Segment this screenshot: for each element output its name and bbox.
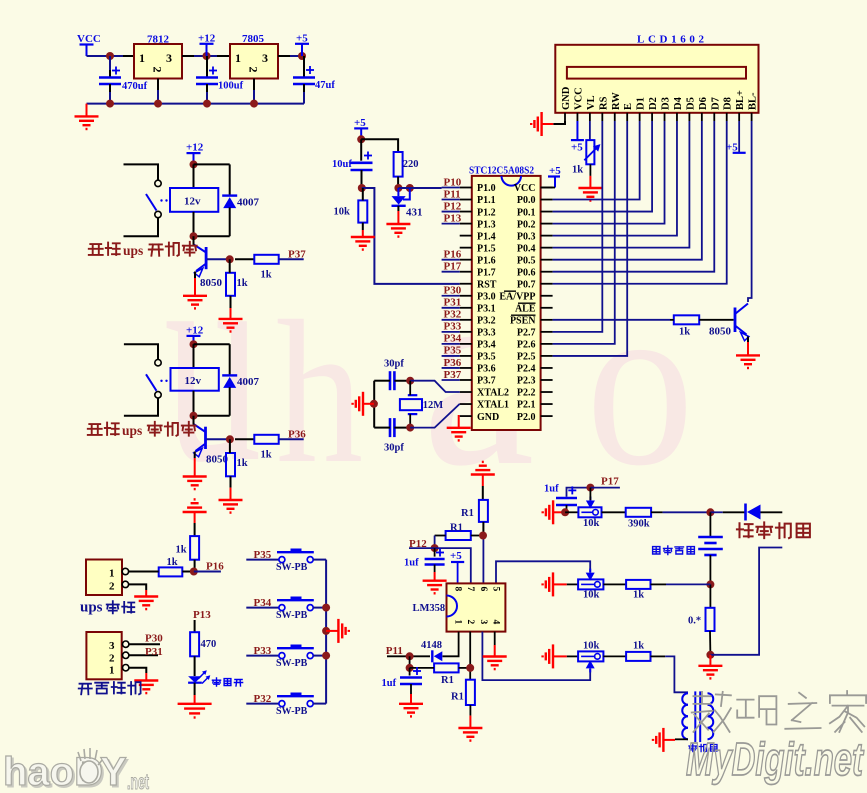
decor [692,692,731,732]
transistor Q1 8050 [194,244,223,289]
wire [246,607,278,609]
wire [494,632,496,645]
svg-text:1uf: 1uf [544,484,559,495]
svg-text:P0.2: P0.2 [517,219,536,230]
svg-text:8050: 8050 [200,277,223,289]
svg-text:ups: ups [122,423,142,438]
wire [290,55,304,57]
wire [553,121,565,124]
net label P34 [254,597,272,609]
wire [313,655,326,657]
wire [124,344,158,359]
svg-text:D3: D3 [661,97,672,110]
svg-text:BL+: BL+ [735,90,746,110]
wire [747,337,749,343]
svg-text:1k: 1k [261,450,272,461]
wire [182,571,190,573]
svg-text:P12: P12 [444,200,462,212]
wire [253,90,255,104]
wire [246,559,278,561]
push button S3 SW-PB [276,645,314,669]
wire [410,684,412,694]
label [88,422,196,438]
net label P17 [601,476,619,488]
svg-text:1: 1 [109,665,115,677]
svg-text:+12: +12 [186,142,204,154]
wire [194,512,196,536]
wire [397,206,399,211]
net label P11 [386,645,403,657]
node [706,508,714,516]
resistor R 1k horizontal [159,557,183,576]
capacitor C 30pf bottom [384,418,404,453]
wire [193,164,195,188]
potentiometer RP2 10k [578,569,603,601]
svg-text:P3.6: P3.6 [477,364,496,375]
label [689,744,717,752]
power flag +5 [571,121,584,154]
wire [471,535,479,537]
wire [553,121,715,272]
svg-text:7: 7 [465,587,475,592]
node [298,52,306,60]
resistor R 1k horizontal [254,435,278,461]
wire [553,121,665,224]
svg-text:390k: 390k [628,519,650,530]
wire [553,121,628,356]
wire [194,452,196,459]
IC U3 STC12C5A08S2 [469,165,541,431]
ground [543,644,567,668]
ground [447,428,471,441]
push button S2 SW-PB [276,597,314,621]
capacitor C 1uf [404,548,445,568]
power flag +5 [726,121,746,154]
wire [194,656,196,676]
pin [460,188,472,417]
wire [325,560,327,704]
diode D4 solar [746,504,761,521]
wire [482,475,484,500]
svg-text:+5: +5 [726,142,738,154]
svg-text:P2.4: P2.4 [517,364,536,375]
label [80,600,134,616]
svg-text:30pf: 30pf [384,443,404,454]
wire [435,535,446,537]
wire [397,177,399,188]
svg-text:SW-PB: SW-PB [276,658,308,669]
wire [675,738,688,740]
wire [374,380,390,382]
svg-text:SW-PB: SW-PB [276,706,308,717]
wire [246,655,278,657]
ground [578,176,602,201]
svg-text:MyDigit.net: MyDigit.net [686,733,864,785]
capacitor C 10uf [332,139,373,170]
svg-text:10k: 10k [583,641,600,652]
net label P35 [254,549,272,561]
svg-text:D8: D8 [723,97,734,110]
svg-text:2: 2 [109,653,115,665]
svg-text:D6: D6 [698,97,709,110]
label [79,682,141,694]
svg-text:2: 2 [247,67,261,73]
ground [531,112,553,136]
pin [278,55,290,57]
svg-text:P36: P36 [288,429,306,441]
net label P33 [254,645,272,657]
wire [129,668,146,673]
svg-text:P3.7: P3.7 [477,376,496,387]
wire [194,620,196,632]
svg-text:P31: P31 [145,646,163,658]
wire [313,559,326,561]
node [466,664,474,672]
svg-text:LM358: LM358 [413,603,446,614]
svg-text:6: 6 [478,587,488,592]
svg-text:P13: P13 [193,609,211,621]
svg-text:1uf: 1uf [382,678,397,689]
node [190,340,198,348]
svg-text:1uf: 1uf [404,558,419,569]
ground [183,458,207,489]
svg-text:+5: +5 [296,33,308,45]
node [406,652,414,660]
transistor Q2 8050 [194,424,229,466]
svg-text:VL: VL [586,95,597,110]
svg-text:1k: 1k [633,641,644,652]
wire [589,121,591,140]
wire [193,236,195,245]
wire [565,511,578,513]
svg-text:.net: .net [127,771,149,793]
svg-text:P1.4: P1.4 [477,231,496,242]
svg-text:2: 2 [109,581,115,593]
pin [253,79,255,91]
wire [567,655,578,657]
svg-text:2: 2 [465,620,475,625]
svg-text:STC12C5A08S2: STC12C5A08S2 [469,165,534,177]
pin [109,84,111,92]
svg-text:7805: 7805 [242,33,265,45]
wire [207,438,230,440]
pin [230,476,232,487]
relay K2 contact [146,360,168,398]
svg-text:VCC: VCC [514,183,536,194]
transformer T1 [682,691,713,742]
wire [279,438,304,440]
svg-text:P2.0: P2.0 [517,412,536,423]
net label P12 [409,538,427,550]
wire [670,319,674,321]
ground [178,695,212,718]
regulator U2 7805 [230,33,278,79]
svg-text:+12: +12 [186,325,204,337]
wire [589,164,591,176]
wire [373,381,375,428]
resistor R 10k [334,200,368,222]
ground [423,572,447,593]
svg-text:12v: 12v [184,196,201,208]
svg-text:P17: P17 [601,476,619,488]
svg-text:P2.5: P2.5 [517,352,536,363]
wire [124,218,159,237]
wire [235,258,254,260]
wire [109,56,111,70]
ground [543,500,565,524]
svg-text:P3.2: P3.2 [477,316,496,327]
svg-text:P0.5: P0.5 [517,255,536,266]
wire [663,511,711,513]
wire [157,90,159,104]
svg-text:P37: P37 [288,249,306,261]
pin [109,70,111,78]
wire [87,103,305,105]
svg-text:P17: P17 [444,261,462,273]
wire [313,607,326,609]
wire [374,427,390,429]
pin [230,296,232,308]
wire [194,571,221,573]
svg-text:P35: P35 [444,345,462,357]
svg-text:P0.7: P0.7 [517,279,536,290]
svg-text:3: 3 [109,640,115,652]
wire [394,427,410,429]
wire [193,212,195,236]
svg-text:1: 1 [139,51,145,65]
wire [553,121,690,248]
wire [442,188,460,380]
svg-text:47uf: 47uf [315,80,335,91]
svg-text:D7: D7 [710,97,721,110]
svg-text:1k: 1k [176,545,187,556]
svg-text:4: 4 [491,620,501,625]
svg-text:4007: 4007 [237,376,260,388]
ground [351,230,375,250]
wire [434,565,436,573]
svg-text:XTAL1: XTAL1 [477,400,509,411]
pin [206,84,208,92]
node [190,412,198,420]
wire [410,404,460,428]
wire [409,656,411,668]
push button S4 SW-PB [276,693,314,717]
node [226,255,234,263]
wire [193,391,195,416]
svg-text:LCD1602: LCD1602 [637,34,705,46]
svg-text:P1.3: P1.3 [477,219,496,230]
diode D1 4007 [222,164,259,236]
IC U5 LM358 [413,583,506,631]
wire [590,487,620,489]
wire [459,667,471,669]
ground [353,392,374,416]
pin [123,55,134,57]
svg-text:30pf: 30pf [384,359,404,370]
wire [553,121,677,236]
wire [124,164,159,180]
svg-text:P1.5: P1.5 [477,243,496,254]
LCD U4 LCD1602 [555,34,758,113]
svg-text:4007: 4007 [237,197,260,209]
svg-text:P1.0: P1.0 [477,183,496,194]
transistor Q3 8050 [709,304,749,341]
node [203,52,211,60]
pin [362,223,364,230]
svg-text:12v: 12v [185,375,202,387]
relay K1 contact [146,180,168,218]
wire [469,632,471,680]
wire [553,121,640,200]
wire [603,655,626,657]
wire [651,583,667,585]
svg-text:1k: 1k [237,458,248,469]
svg-text:1k: 1k [633,590,644,601]
net label P30 [145,633,163,645]
wire [387,655,430,657]
svg-text:3: 3 [478,620,488,625]
svg-text:10k: 10k [334,207,351,218]
wire [553,121,652,212]
wire [541,187,555,189]
wire [553,121,727,284]
wire [553,319,670,321]
svg-text:SW-PB: SW-PB [276,562,308,573]
svg-text:8050: 8050 [709,326,732,338]
wire [443,632,459,657]
wire [496,561,590,583]
capacitor C2 100uf [196,67,244,92]
resistor R 220 [394,152,419,177]
wire [362,188,460,284]
power flag +5 [548,165,561,188]
svg-text:P0.1: P0.1 [517,207,536,218]
wire [435,548,471,583]
svg-text:P3.1: P3.1 [477,304,496,315]
ground [134,590,158,609]
svg-text:ups: ups [123,243,143,258]
svg-text:Y: Y [100,750,127,793]
IC U3 pin names [477,183,536,423]
node [406,377,414,385]
svg-text:P1.6: P1.6 [477,255,496,266]
svg-text:EA/VPP: EA/VPP [499,291,535,302]
svg-text:+5: +5 [549,165,561,177]
wire [124,398,158,416]
net labels MCU left [444,176,462,380]
resistor R 470 [190,632,216,656]
svg-text:1k: 1k [237,278,248,289]
wire [710,511,722,513]
wire [193,416,195,425]
svg-text:GND: GND [561,86,572,110]
svg-text:P0.6: P0.6 [517,267,536,278]
wire [723,511,745,513]
svg-text:10k: 10k [583,518,600,529]
wire [194,415,230,417]
wire [482,522,484,536]
resistor R1 horizontal [446,523,471,541]
wire [303,92,305,104]
wire [246,703,278,705]
wire [398,187,409,189]
power flag VCC [77,33,101,56]
svg-text:R1: R1 [451,692,464,703]
power flag +5 [450,550,464,583]
svg-text:5: 5 [491,587,501,592]
capacitor C1 470uf [99,67,148,93]
svg-text:RST: RST [477,279,497,290]
svg-text:2: 2 [151,67,165,73]
potentiometer RP 1k [572,140,600,175]
power flag +12 [186,142,204,165]
capacitor C 1uf 2 [382,667,423,689]
svg-text:1k: 1k [572,165,583,176]
pin [565,113,752,121]
svg-text:P1.1: P1.1 [477,195,496,206]
pin [182,55,194,57]
regulator U1 7812 [134,34,182,79]
svg-text:PSEN: PSEN [510,316,536,327]
wire [710,548,782,655]
wire [651,655,666,657]
wire [553,121,615,344]
svg-text:R1: R1 [450,523,463,534]
resistor R1 vertical top [461,500,488,522]
wire [194,55,217,57]
svg-text:P33: P33 [444,321,462,333]
wire [409,547,435,549]
wire [434,536,436,549]
net label P32 [254,693,272,705]
svg-text:P2.1: P2.1 [517,400,536,411]
wire [709,631,711,655]
svg-text:12M: 12M [423,400,444,411]
node [706,651,714,659]
node [106,100,258,108]
svg-text:P2.2: P2.2 [517,388,536,399]
ground [75,104,99,129]
svg-text:+5: +5 [571,142,583,154]
resistor R 1k vertical [226,453,248,476]
svg-text:RS: RS [598,96,609,110]
node [406,664,414,672]
wire [410,381,460,392]
svg-text:P36: P36 [444,357,462,369]
svg-text:470uf: 470uf [122,81,148,92]
node [586,484,594,492]
svg-text:P11: P11 [444,188,461,200]
svg-text:D2: D2 [648,97,659,110]
wire [614,583,626,585]
svg-text:E: E [623,103,634,110]
ground [219,488,243,513]
crystal Y1 12M [400,381,443,428]
svg-text:P1.7: P1.7 [477,267,496,278]
wire [206,92,208,104]
svg-text:P0.3: P0.3 [517,231,536,242]
potentiometer RP3 10k [578,641,603,673]
svg-text:D5: D5 [685,97,696,110]
svg-text:SW-PB: SW-PB [276,610,308,621]
wire [194,163,230,165]
ground [483,645,507,669]
resistor R1 horizontal 2 [434,663,459,686]
wire [553,121,603,332]
pin [157,79,159,91]
ground [543,572,567,596]
relay K1 coil 12v [170,188,218,212]
